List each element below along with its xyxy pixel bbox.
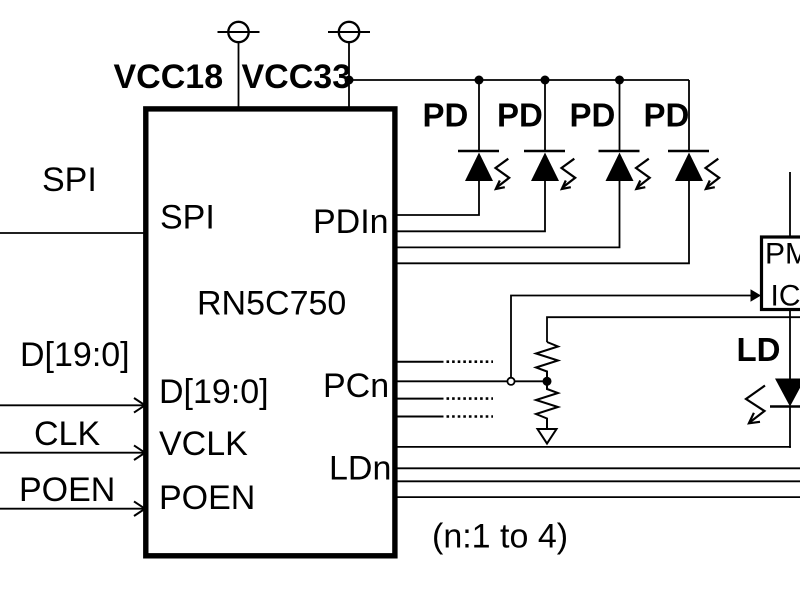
photodiode PD1	[458, 151, 509, 189]
svg-text:SPI: SPI	[42, 161, 97, 199]
wire LDn line 1 to LD	[397, 446, 791, 448]
wire VCC33 rail to photodiodes	[349, 79, 689, 81]
junction VCC33 rail	[345, 76, 354, 85]
svg-text:CLK: CLK	[34, 415, 100, 453]
resistor R upper	[536, 342, 558, 378]
hollow arrow down (current sink)	[538, 429, 557, 444]
wire PD4 anode to PDIn	[397, 181, 689, 263]
wire PCn line 1 solid	[397, 361, 444, 363]
svg-text:PM: PM	[765, 238, 800, 271]
svg-text:RN5C750: RN5C750	[197, 285, 346, 323]
svg-text:LDn: LDn	[329, 450, 391, 488]
svg-text:LD: LD	[737, 331, 781, 368]
wire PD3 anode to PDIn	[397, 181, 620, 247]
photodiode PD2	[524, 151, 575, 189]
IC U1 RN5C750 body	[146, 109, 395, 556]
svg-text:POEN: POEN	[19, 471, 115, 509]
node open circle on PCn	[507, 378, 514, 385]
wire PCn line 3 dotted	[447, 397, 494, 400]
arrowhead POEN into IC	[134, 501, 145, 516]
photodiode PD3	[599, 151, 650, 189]
wire LDn line 2	[397, 467, 800, 469]
wire rail to PD1 cathode	[478, 80, 480, 151]
svg-text:PD: PD	[423, 97, 469, 134]
LD light arrow	[746, 386, 765, 424]
wire PM IC bottom to LD	[789, 310, 791, 379]
PM IC block	[762, 237, 800, 310]
wire D[19:0] input	[0, 404, 144, 406]
junction rail at PD1	[475, 76, 484, 85]
wire VCC18 terminal to IC top	[238, 42, 240, 110]
svg-text:D[19:0]: D[19:0]	[159, 373, 269, 411]
arrowhead D[19:0] into IC	[134, 398, 145, 413]
photodiode PD4	[668, 151, 719, 189]
wire LDn line 4	[397, 496, 800, 498]
svg-text:VCLK: VCLK	[159, 425, 248, 463]
wire PCn line 4 dotted	[447, 415, 494, 418]
svg-text:PD: PD	[644, 97, 690, 134]
svg-text:D[19:0]: D[19:0]	[20, 336, 130, 374]
wire LDn line 3	[397, 480, 800, 482]
wire rail to PD2 cathode	[544, 80, 546, 151]
wire LD cathode down	[789, 407, 791, 448]
wire VCC33 terminal to IC top	[348, 42, 350, 110]
junction rail at PD3	[615, 76, 624, 85]
power terminal VCC33	[328, 22, 370, 42]
svg-text:PCn: PCn	[323, 367, 389, 405]
wire rail to PD4 cathode	[688, 80, 690, 151]
svg-text:IC: IC	[771, 280, 800, 313]
junction rail at PD2	[541, 76, 550, 85]
svg-text:(n:1 to 4): (n:1 to 4)	[432, 518, 568, 556]
wire PCn branch up to PM IC	[511, 296, 752, 380]
wire PCn main	[397, 380, 547, 382]
junction PCn resistor tap	[543, 377, 552, 386]
arrowhead CLK into IC	[134, 445, 145, 460]
svg-text:PD: PD	[570, 97, 616, 134]
svg-text:PDIn: PDIn	[313, 203, 389, 241]
wire PCn line 3 solid	[397, 398, 444, 400]
wire POEN input	[0, 508, 144, 510]
svg-text:PD: PD	[497, 97, 543, 134]
resistor R lower	[536, 386, 558, 430]
wire resistor top to right edge	[547, 317, 800, 342]
wire PCn line 4 solid	[397, 416, 444, 418]
svg-text:POEN: POEN	[159, 479, 255, 517]
arrowhead into PM IC	[751, 289, 762, 302]
power terminal VCC18	[218, 22, 260, 42]
wire SPI input	[0, 232, 144, 234]
svg-text:VCC18: VCC18	[114, 58, 224, 96]
svg-text:VCC33: VCC33	[242, 58, 352, 96]
wire CLK input	[0, 452, 144, 454]
wire PD2 anode to PDIn	[397, 181, 545, 231]
laser diode LD	[770, 379, 800, 407]
wire PCn line 1 dotted	[447, 360, 494, 363]
svg-text:SPI: SPI	[160, 199, 215, 237]
wire PD1 anode to PDIn	[397, 181, 479, 215]
wire rail to PD3 cathode	[619, 80, 621, 151]
wire PM IC top stub	[789, 172, 791, 237]
